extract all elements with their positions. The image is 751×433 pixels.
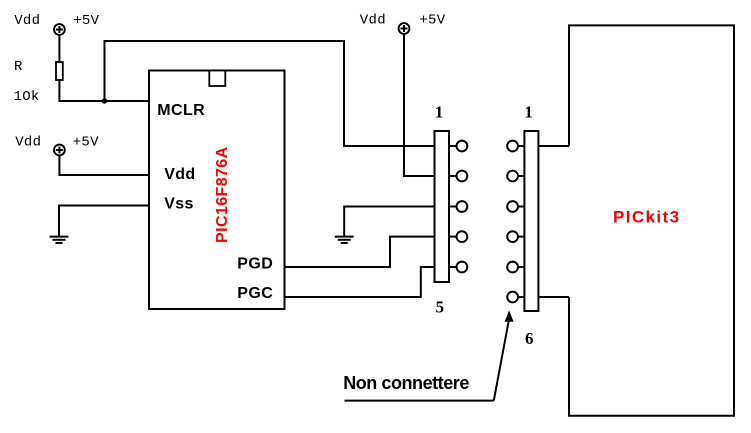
wire connector pin 3 to ground xyxy=(344,207,434,237)
J2 pin circles xyxy=(507,141,518,303)
ground symbol (left) xyxy=(50,237,69,243)
svg-text:1Ok: 1Ok xyxy=(14,89,40,105)
svg-text:+5V: +5V xyxy=(73,13,99,29)
IC U1 PIC16F876A body xyxy=(149,71,285,310)
svg-text:PIC16F876A: PIC16F876A xyxy=(214,146,231,243)
svg-text:Vss: Vss xyxy=(164,196,194,213)
ground symbol (middle) xyxy=(335,237,354,243)
wire PGC to connector pin 5 xyxy=(285,267,435,297)
connector J1 body (left header) xyxy=(435,131,450,282)
wire +5V to connector pin 2 xyxy=(404,34,435,176)
callout arrowhead xyxy=(505,310,514,321)
wire Vss pin to ground xyxy=(59,206,149,237)
callout underline xyxy=(345,400,494,402)
connector J2 body (right header) xyxy=(524,131,538,311)
svg-text:MCLR: MCLR xyxy=(157,102,205,119)
svg-text:Vdd: Vdd xyxy=(164,166,195,183)
svg-text:Vdd: Vdd xyxy=(15,135,41,151)
J1 pin circles xyxy=(457,141,468,273)
J1 pin stubs xyxy=(449,146,456,267)
wire PGD to connector pin 4 xyxy=(285,237,435,267)
svg-text:+5V: +5V xyxy=(73,135,99,151)
svg-text:PGD: PGD xyxy=(237,256,273,273)
svg-text:Vdd: Vdd xyxy=(14,13,40,29)
IC notch xyxy=(209,71,225,87)
resistor R xyxy=(56,62,63,80)
svg-text:Vdd: Vdd xyxy=(360,13,386,29)
svg-text:PICkit3: PICkit3 xyxy=(613,207,680,226)
svg-text:R: R xyxy=(14,59,23,75)
power supply symbol +5V (top-left) xyxy=(54,24,65,35)
wire J2 pin 6 to PICkit3 xyxy=(539,296,570,298)
PICkit3 box xyxy=(569,25,734,415)
wire resistor to MCLR net xyxy=(59,80,149,101)
J2 pin stubs xyxy=(518,146,524,297)
junction dot MCLR net xyxy=(102,98,107,103)
power supply symbol +5V (top-middle) xyxy=(399,23,410,34)
wire J2 pin 1 to PICkit3 xyxy=(539,145,570,147)
svg-text:Non connettere: Non connettere xyxy=(343,373,469,393)
power supply symbol +5V (mid-left) xyxy=(54,145,65,156)
callout arrow line xyxy=(494,322,509,401)
wire MCLR net to connector pin 1 xyxy=(105,41,435,146)
svg-text:5: 5 xyxy=(436,297,445,316)
svg-text:1: 1 xyxy=(524,102,533,121)
svg-text:PGC: PGC xyxy=(237,285,273,302)
wire +5V to Vdd pin xyxy=(59,156,149,176)
svg-text:+5V: +5V xyxy=(419,13,445,29)
wire +5V to resistor xyxy=(58,35,60,62)
svg-text:6: 6 xyxy=(525,329,534,348)
svg-text:1: 1 xyxy=(435,102,444,121)
